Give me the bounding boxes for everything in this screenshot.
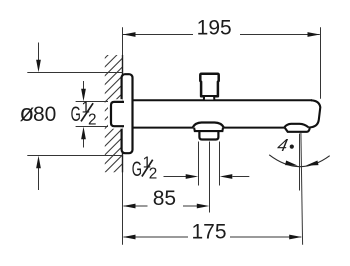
wall face edge (darker within wall extent) bbox=[122, 55, 124, 172]
dimension G1/2 upper: top line bbox=[76, 101, 110, 103]
svg-text:85: 85 bbox=[153, 187, 176, 210]
svg-text:G: G bbox=[71, 102, 81, 126]
spout tip outlet: skirt bbox=[285, 128, 310, 132]
svg-text:175: 175 bbox=[191, 221, 226, 244]
shower outlet dome bbox=[193, 123, 224, 128]
4-degree tilted spout-face line (175 dim extension) bbox=[301, 132, 303, 244]
dimension 175: arrows bbox=[123, 235, 136, 240]
svg-text:2: 2 bbox=[88, 112, 97, 129]
dimension o80: bottom line bbox=[27, 155, 122, 157]
4-degree reference vertical line bbox=[299, 134, 301, 191]
G1/2 inlet pipe in wall: white halo bbox=[108, 99, 123, 129]
4-degree arc arrowheads bbox=[285, 160, 298, 167]
G1/2 inlet pipe in wall bbox=[111, 102, 124, 126]
dimension o80: bottom arrow bbox=[38, 167, 40, 190]
flange (escutcheon, side view) bbox=[122, 74, 133, 153]
label G1/2 upper bbox=[71, 99, 97, 128]
dimension G1/2 upper: down arrow bbox=[83, 81, 85, 90]
shower outlet nut bbox=[199, 131, 218, 140]
dimension 85: line bbox=[124, 205, 198, 207]
dimension 195: arrows bbox=[123, 32, 136, 37]
dimension 175: line bbox=[124, 236, 302, 238]
dimension G1/2 upper: up arrow bbox=[83, 139, 85, 148]
svg-text:2: 2 bbox=[149, 166, 158, 183]
spout body: top edge bbox=[132, 99, 312, 101]
diverter knob neck bbox=[204, 96, 214, 100]
dimension 85: arrows bbox=[123, 204, 136, 209]
G1/2 lower: dim line + arrows bbox=[164, 176, 187, 178]
dimension o80: top arrow bbox=[38, 43, 40, 62]
label G1/2 lower bbox=[132, 155, 158, 183]
spout body: bottom edge segments bbox=[132, 127, 285, 129]
wall face line (extension line for 195/85/175 dims) bbox=[122, 27, 124, 244]
spout tip outlet: ridge bbox=[284, 124, 308, 128]
wall hatching bbox=[96, 27, 136, 208]
diverter knob body bbox=[200, 74, 218, 96]
svg-text:4: 4 bbox=[276, 135, 290, 155]
G1/2 lower: extension line left of nut bbox=[198, 142, 200, 186]
svg-text:G: G bbox=[132, 157, 142, 181]
4-degree angle arc bbox=[269, 155, 330, 167]
dimension G1/2 upper: bottom line bbox=[76, 126, 110, 128]
dimension 195: line bbox=[123, 34, 320, 36]
svg-text:195: 195 bbox=[197, 17, 232, 40]
shower outlet dome skirt bbox=[194, 128, 223, 131]
spout tip: rounded end with 4-degree face bbox=[309, 100, 321, 127]
dimension 195: right extension line bbox=[320, 27, 322, 99]
G1/2 lower: extension line right of nut bbox=[219, 142, 221, 186]
degree dot bbox=[290, 145, 294, 149]
dimension o80: top line bbox=[27, 72, 122, 74]
shower outlet centerline (85 dim extension) bbox=[209, 142, 211, 213]
svg-text:ø80: ø80 bbox=[20, 100, 57, 127]
